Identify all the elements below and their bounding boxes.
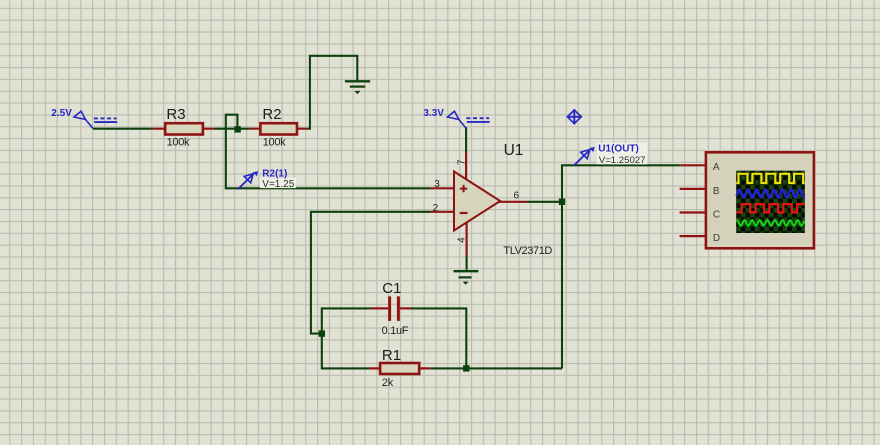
svg-text:4: 4 bbox=[456, 237, 467, 243]
wire net divider: R3 pin 2 to R2 pin 1 bbox=[215, 128, 249, 130]
junction dot on output net bbox=[559, 199, 565, 205]
op-amp triangle body bbox=[454, 172, 500, 231]
svg-text:0.1uF: 0.1uF bbox=[382, 325, 409, 337]
wire divider tap to op-amp non-inverting input (hop over) bbox=[226, 115, 431, 189]
svg-text:6: 6 bbox=[514, 190, 520, 201]
resistor R3 bbox=[152, 106, 215, 148]
wire net VIN: 2.5V source to R3 pin 1 bbox=[93, 128, 153, 130]
scope screen bbox=[736, 171, 804, 233]
wire R2 pin 2 up and over to ground bbox=[308, 56, 358, 129]
svg-text:V=1.25: V=1.25 bbox=[262, 179, 294, 190]
svg-text:B: B bbox=[713, 186, 720, 197]
power terminal 2.5V bbox=[51, 108, 117, 128]
channel C trace (red square wave) bbox=[736, 204, 804, 212]
svg-text:C1: C1 bbox=[382, 280, 401, 297]
op-amp pin 6 (output) bbox=[499, 201, 527, 203]
channel D trace (green wave) bbox=[736, 220, 804, 226]
scope pin D bbox=[680, 235, 709, 237]
scope pin B bbox=[680, 188, 709, 190]
wire op-amp pin 4 to ground bbox=[466, 256, 468, 270]
ground (op-amp pin 4) bbox=[454, 271, 479, 285]
svg-text:A: A bbox=[713, 162, 720, 173]
wire op-amp inverting input to feedback node bbox=[311, 212, 431, 334]
wire feedback left rail: C1 pin 1 down to R1 pin 1 bbox=[322, 308, 371, 368]
resistor R2 bbox=[249, 106, 308, 148]
svg-text:R3: R3 bbox=[166, 106, 185, 123]
scope pin C bbox=[680, 211, 709, 213]
svg-text:V=1.25027: V=1.25027 bbox=[599, 155, 646, 166]
voltage probe R2(1) bbox=[238, 169, 296, 190]
resistor R1 bbox=[369, 347, 430, 389]
junction dot R1/C1 output side bbox=[463, 365, 469, 371]
junction dot at divider tap bbox=[234, 126, 240, 132]
svg-text:TLV2371D: TLV2371D bbox=[503, 245, 552, 257]
scope pin A bbox=[681, 164, 709, 166]
capacitor C1 bbox=[371, 280, 412, 337]
op-amp U1 TLV2371D bbox=[431, 142, 553, 257]
op-amp pin 7 (V+) bbox=[465, 152, 467, 180]
voltage probe U1(OUT) bbox=[574, 143, 647, 166]
channel A trace (yellow square wave) bbox=[736, 174, 804, 183]
op-amp pin 3 (non-inverting input) bbox=[431, 187, 454, 189]
power terminal 3.3V bbox=[423, 108, 489, 128]
junction dot feedback left bbox=[319, 330, 325, 336]
plus sign bbox=[460, 185, 467, 192]
scope body bbox=[706, 152, 814, 248]
wire 3.3V source to op-amp pin 7 bbox=[465, 127, 467, 152]
wire C1 pin 2 down to R1/output rail bbox=[412, 308, 467, 368]
svg-text:7: 7 bbox=[456, 159, 467, 165]
svg-text:2.5V: 2.5V bbox=[51, 108, 72, 119]
origin marker (blue diamond crosshair) bbox=[567, 109, 582, 124]
svg-text:D: D bbox=[713, 233, 720, 244]
op-amp pin 2 (inverting input) bbox=[431, 211, 454, 213]
op-amp pin 4 (V-) bbox=[466, 223, 468, 256]
svg-text:2: 2 bbox=[433, 203, 439, 214]
svg-text:C: C bbox=[713, 209, 720, 220]
svg-text:3: 3 bbox=[434, 179, 440, 190]
oscilloscope (4-channel) bbox=[680, 152, 814, 248]
svg-text:100k: 100k bbox=[167, 137, 190, 149]
svg-text:R2: R2 bbox=[262, 106, 281, 123]
svg-text:R1: R1 bbox=[382, 347, 401, 364]
ground (top, divider return) bbox=[345, 81, 370, 94]
wire output net: op-amp pin 6 to scope channel A bbox=[527, 165, 681, 368]
svg-text:2k: 2k bbox=[382, 377, 394, 389]
channel B trace (blue wave) bbox=[736, 190, 804, 198]
svg-text:3.3V: 3.3V bbox=[423, 108, 444, 119]
wire R1 pin 2 to output vertical rail bbox=[430, 367, 562, 369]
svg-text:U1: U1 bbox=[504, 142, 524, 159]
svg-text:100k: 100k bbox=[263, 137, 286, 149]
minus sign bbox=[460, 212, 468, 214]
svg-text:U1(OUT): U1(OUT) bbox=[598, 144, 639, 155]
